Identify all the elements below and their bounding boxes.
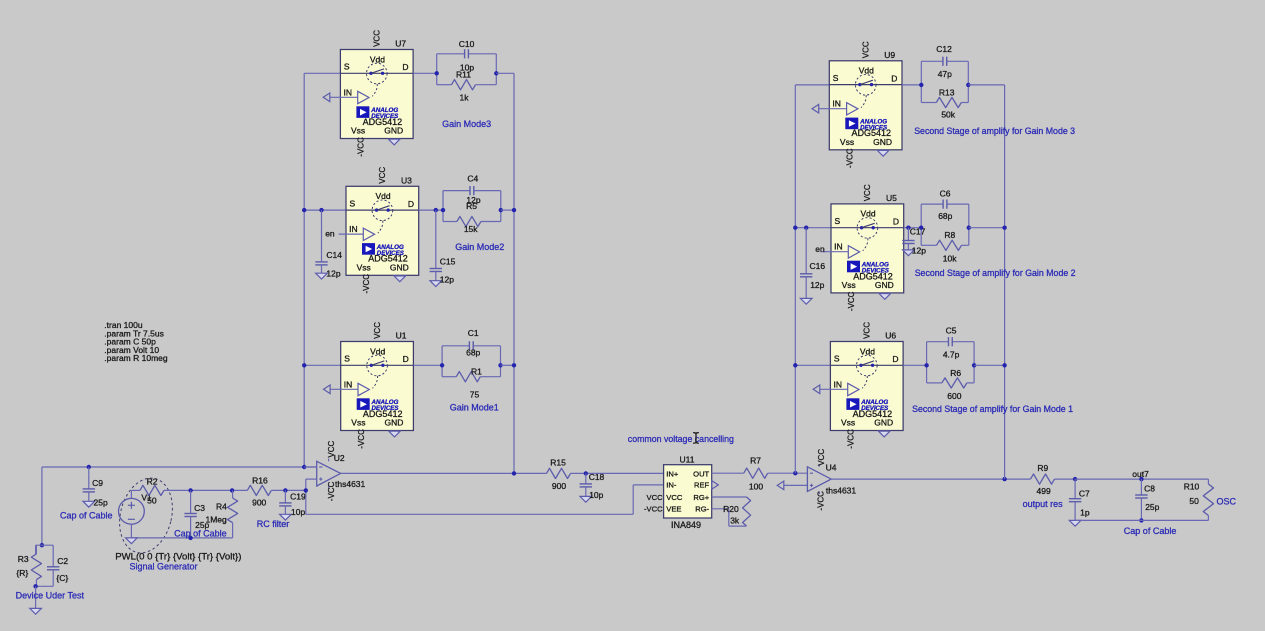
svg-text:100: 100: [749, 482, 763, 492]
svg-text:U2: U2: [334, 453, 345, 463]
svg-text:R16: R16: [252, 476, 268, 486]
svg-text:Signal Generator: Signal Generator: [130, 562, 198, 572]
device under test R3 {R} parallel C2 {C}: [36, 545, 54, 554]
svg-text:OSC: OSC: [1217, 496, 1237, 506]
capacitor C12 (47p) and resistor R13 (50k): second stage Gain Mode 3: [919, 44, 970, 119]
dashed ellipse around signal generator: [112, 472, 180, 558]
ground: signal generator: [126, 538, 138, 544]
svg-text:50k: 50k: [941, 110, 955, 120]
resistor R4 (1Meg): [206, 490, 238, 538]
svg-text:15k: 15k: [464, 224, 478, 234]
node: right-half output bus junction: [1002, 477, 1006, 481]
wire: output ground rail: [1075, 519, 1208, 521]
capacitor C4 (12p) and resistor R5 (15k): Gain Mode2 feedback network: [441, 174, 503, 234]
node: right bus junction row3: [512, 363, 516, 367]
svg-text:3k: 3k: [730, 515, 740, 525]
node: bus junction at U1 S: [302, 363, 306, 367]
svg-text:4.7p: 4.7p: [943, 349, 960, 359]
svg-text:Second Stage of amplify for Ga: Second Stage of amplify for Gain Mode 2: [915, 268, 1076, 278]
svg-text:-VCC: -VCC: [817, 491, 826, 511]
capacitor C1 (68p) and resistor R1 (75): Gain Mode1 feedback network: [440, 328, 503, 400]
svg-text:75: 75: [470, 390, 480, 400]
switch U9 (ADG5412): [812, 41, 902, 168]
svg-text:C3: C3: [194, 503, 205, 513]
svg-text:900: 900: [252, 497, 266, 507]
svg-text:900: 900: [552, 481, 566, 491]
svg-text:U1: U1: [396, 331, 407, 341]
switch U7 (ADG5412): [323, 30, 413, 157]
resistor R7 (100): [744, 456, 808, 492]
svg-text:C16: C16: [810, 261, 826, 271]
resistor R3 {R}: [16, 545, 41, 586]
capacitor C14 (12p) on S node of U3: [315, 208, 342, 279]
wire: out7 row: [1075, 478, 1208, 480]
svg-text:C8: C8: [1144, 483, 1155, 493]
capacitor C19 (10p) RC filter: [279, 488, 306, 520]
svg-text:Second Stage of amplify for Ga: Second Stage of amplify for Gain Mode 3: [914, 126, 1075, 136]
svg-text:C5: C5: [946, 325, 957, 335]
resistor R10 (50) OSC load: [1184, 479, 1214, 520]
svg-text:ths4631: ths4631: [335, 479, 366, 489]
node: R7 / right-half bus junction: [793, 471, 797, 475]
capacitor C10 (10p) and resistor R11 (1k): Gain Mode3 feedback network: [435, 39, 499, 103]
svg-text:12p: 12p: [326, 269, 340, 279]
svg-text:68p: 68p: [466, 348, 480, 358]
svg-text:C4: C4: [467, 174, 478, 184]
wire: DUT vertical: [41, 467, 43, 545]
svg-text:U4: U4: [826, 462, 837, 472]
capacitor C6 (68p) and resistor R8 (10k): second stage Gain Mode 2: [919, 189, 971, 264]
voltage source V1: [118, 490, 152, 538]
svg-text:OUT: OUT: [693, 469, 709, 478]
wire: left output bus (U2 output feedback bus): [513, 73, 515, 473]
wire: generator ground rail: [131, 537, 232, 539]
svg-text:68p: 68p: [938, 211, 952, 221]
wire: S pin of U3 to bus: [304, 209, 346, 211]
svg-text:C9: C9: [92, 478, 103, 488]
svg-text:U5: U5: [886, 193, 897, 203]
node: bus junction at U3 S: [302, 208, 306, 212]
svg-text:common voltage cancelling: common voltage cancelling: [628, 434, 734, 444]
svg-text:C19: C19: [290, 492, 306, 502]
svg-text:en: en: [325, 229, 335, 239]
svg-text:Gain Mode2: Gain Mode2: [455, 242, 504, 252]
wire: network to right bus: [501, 209, 514, 211]
wire: network to right bus: [968, 84, 1004, 86]
wire: network to right bus: [969, 227, 1005, 229]
svg-text:Device Uder Test: Device Uder Test: [16, 591, 85, 601]
svg-text:RG+: RG+: [693, 493, 709, 502]
svg-text:IN+: IN+: [666, 469, 679, 478]
wire: D pin of U5 to network: [904, 227, 922, 229]
wire: DUT to ground: [35, 586, 37, 608]
svg-text:R20: R20: [723, 504, 739, 514]
capacitor C8 (25p) Cap of Cable: [1135, 477, 1159, 523]
wire: U2 non-inverting input stub: [306, 478, 317, 480]
svg-text:C6: C6: [940, 189, 951, 199]
svg-text:Cap of Cable: Cap of Cable: [1124, 526, 1177, 536]
svg-text:REF: REF: [694, 481, 710, 490]
capacitor C9 (25p) Cap of Cable: [83, 465, 108, 508]
wire: generator output row: [191, 489, 248, 491]
svg-text:C2: C2: [57, 556, 68, 566]
switch U6 (ADG5412): [813, 322, 903, 449]
instrumentation amp U11 INA849: [664, 455, 712, 530]
svg-text:U6: U6: [885, 331, 896, 341]
wire: D pin of U6 to network: [903, 364, 927, 366]
node: DUT bottom node: [33, 584, 37, 588]
wire: right-half input bus: [794, 85, 796, 473]
node: output/bus junction: [512, 471, 516, 475]
svg-text:{C}: {C}: [56, 573, 68, 583]
resistor R2 (50) source impedance: [131, 477, 190, 506]
svg-text:U3: U3: [401, 175, 412, 185]
svg-text:U9: U9: [884, 50, 895, 60]
capacitor C5 (4.7p) and resistor R6 (600): second stage Gain Mode 1: [924, 325, 976, 401]
svg-text:R9: R9: [1037, 463, 1048, 473]
svg-text:Second Stage of amplify for Ga: Second Stage of amplify for Gain Mode 1: [912, 404, 1073, 414]
wire: U2 output to R15: [341, 472, 547, 474]
svg-text:1Meg: 1Meg: [206, 514, 228, 524]
svg-text:12p: 12p: [810, 280, 824, 290]
svg-text:INA849: INA849: [671, 520, 701, 530]
wire: U11 OUT to R7: [712, 472, 744, 474]
capacitor C3 (25p) Cap of Cable: [184, 490, 209, 538]
switch U1 (ADG5412): [324, 322, 414, 449]
svg-text:C7: C7: [1079, 489, 1090, 499]
op-amp U2 ths4631: [317, 440, 366, 501]
svg-text:50: 50: [147, 496, 157, 506]
svg-text:R15: R15: [550, 458, 566, 468]
svg-text:ths4631: ths4631: [826, 485, 857, 495]
node: junction at U2 inverting input bus: [302, 465, 306, 469]
resistor R9 (499) output res: [1031, 463, 1076, 496]
svg-text:25p: 25p: [1145, 502, 1159, 512]
switch U5 (ADG5412), enable net "en": [815, 184, 903, 311]
wire: S pin of U1 to bus: [304, 364, 341, 366]
svg-text:VCC: VCC: [647, 493, 664, 502]
svg-text:output res: output res: [1023, 499, 1064, 509]
node: C3 top: [188, 488, 192, 492]
svg-text:{R}: {R}: [16, 568, 28, 578]
svg-text:1p: 1p: [1080, 508, 1090, 518]
spice directives text block: [104, 320, 168, 363]
svg-text:-VCC: -VCC: [644, 505, 663, 514]
svg-text:R4: R4: [216, 502, 227, 512]
wire: DUT node to U2 inverting input (top row): [42, 466, 317, 468]
resistor R15 (900): [547, 458, 664, 491]
switch U3 (ADG5412), enable net "en": [325, 167, 419, 294]
REF pin flag (right arrow): [712, 481, 719, 490]
svg-text:R6: R6: [950, 368, 961, 378]
wire: D pin of U7 to feedback network: [413, 72, 437, 74]
wire: S pin of U9 to bus: [795, 84, 829, 86]
svg-text:R7: R7: [750, 456, 761, 466]
svg-text:10p: 10p: [589, 490, 603, 500]
svg-text:U7: U7: [395, 39, 406, 49]
svg-text:Cap of Cable: Cap of Cable: [60, 510, 113, 520]
ground: DUT: [30, 608, 42, 614]
svg-text:47p: 47p: [938, 69, 952, 79]
svg-text:RG-: RG-: [695, 504, 709, 513]
svg-text:Gain Mode3: Gain Mode3: [442, 119, 491, 129]
capacitor C7 (1p): [1069, 477, 1090, 526]
svg-text:Gain Mode1: Gain Mode1: [450, 403, 499, 413]
svg-text:.param R 10meg: .param R 10meg: [104, 353, 168, 363]
svg-text:600: 600: [947, 391, 961, 401]
wire: network to right bus: [501, 364, 515, 366]
svg-text:R10: R10: [1184, 482, 1200, 492]
node: right bus junction row2: [512, 208, 516, 212]
svg-text:en: en: [815, 244, 825, 254]
svg-text:C18: C18: [589, 472, 605, 482]
wire: right-half output bus: [1004, 85, 1006, 479]
wire: S pin of U6 to bus: [795, 364, 830, 366]
svg-text:10k: 10k: [943, 253, 957, 263]
wire: S pin of U7 to bus: [304, 72, 340, 74]
wire: U4 output row: [831, 478, 1030, 480]
resistor R20 (3k) gain set: [712, 497, 751, 526]
svg-text:U11: U11: [680, 455, 695, 465]
wire: network to right bus: [974, 364, 1005, 366]
wire: D pin of U3 to feedback network: [419, 209, 443, 211]
wire: S pin of U5 to bus: [795, 227, 831, 229]
svg-text:R2: R2: [147, 477, 158, 487]
svg-text:R8: R8: [944, 230, 955, 240]
svg-text:12p: 12p: [912, 246, 926, 256]
node: C3 bottom: [188, 536, 192, 540]
svg-text:499: 499: [1037, 486, 1051, 496]
svg-text:R11: R11: [456, 70, 471, 80]
svg-text:C14: C14: [326, 250, 342, 260]
input flag at U4 non-inverting input: [777, 481, 807, 490]
svg-text:VCC: VCC: [666, 493, 683, 502]
wire: feedback sense line to INA849 IN-: [306, 485, 664, 514]
node: right bus junction row2: [1002, 226, 1006, 230]
svg-text:RC filter: RC filter: [257, 519, 290, 529]
node A: DUT top node: [40, 543, 44, 547]
svg-text:12p: 12p: [440, 274, 454, 284]
wire: D pin of U1 to feedback network: [413, 364, 442, 366]
resistor R16 (900) RC filter: [247, 476, 305, 508]
svg-text:C10: C10: [459, 39, 475, 49]
capacitor C15 (12p) on D node of U3: [430, 208, 456, 287]
wire: D pin of U9 to network: [902, 84, 921, 86]
svg-text:25p: 25p: [94, 498, 108, 508]
svg-text:VEE: VEE: [666, 504, 681, 513]
wire: left feedback bus (inverting-input bus of U2): [303, 73, 305, 467]
node: R4 top: [230, 488, 234, 492]
wire: DUT bottom bar: [36, 585, 54, 587]
capacitor C2 {C}: [47, 545, 68, 586]
svg-text:R1: R1: [471, 367, 482, 377]
text cursor I-beam: [693, 432, 699, 443]
op-amp U4 ths4631: [807, 449, 856, 511]
svg-text:R5: R5: [466, 201, 477, 211]
svg-text:IN-: IN-: [666, 481, 677, 490]
node: right bus junction row3: [1002, 363, 1006, 367]
svg-text:50: 50: [1189, 496, 1199, 506]
capacitor C18 (10p): [580, 471, 605, 502]
svg-text:C15: C15: [440, 257, 456, 267]
node: bus junction at U6 S: [793, 363, 797, 367]
capacitor C16 (12p) on S node of U5: [800, 226, 825, 305]
svg-text:C12: C12: [936, 44, 952, 54]
wire: filter node vertical to U2 non-inverting input and feedback sense: [304, 479, 308, 514]
svg-text:R3: R3: [18, 554, 29, 564]
capacitor C17 (12p) on D node of U5: [902, 226, 926, 256]
svg-text:C1: C1: [468, 328, 479, 338]
wire: U2 inverting input stub: [304, 466, 317, 468]
node: bus junction at U5 S: [793, 226, 797, 230]
svg-text:VCC: VCC: [817, 449, 826, 466]
wire: network to right bus: [496, 72, 514, 74]
svg-text:Cap of Cable: Cap of Cable: [174, 529, 227, 539]
svg-text:1k: 1k: [460, 93, 470, 103]
svg-text:R13: R13: [939, 88, 955, 98]
svg-text:10p: 10p: [291, 507, 305, 517]
